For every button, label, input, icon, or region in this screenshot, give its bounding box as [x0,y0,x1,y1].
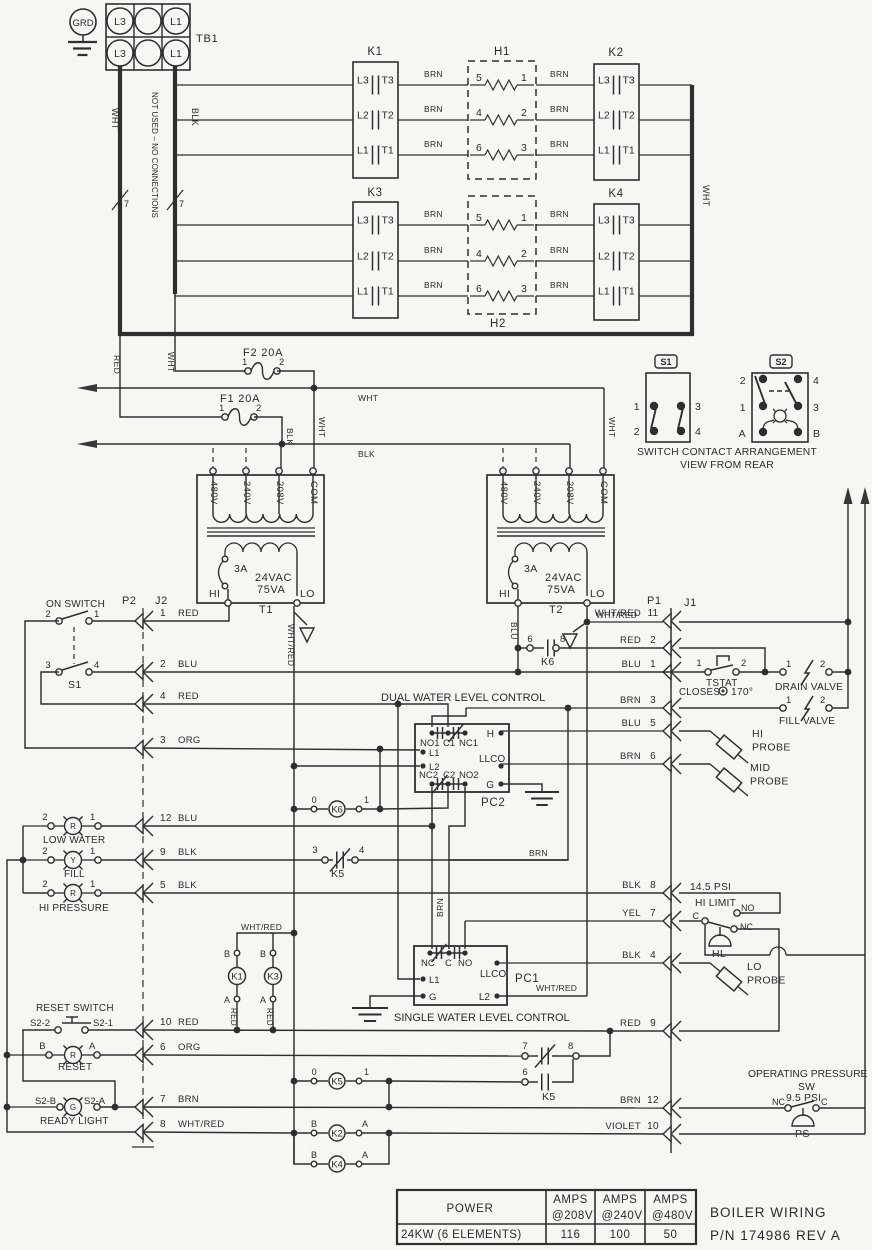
solenoid FILL VALVE [779,695,835,727]
svg-text:DUAL WATER LEVEL CONTROL: DUAL WATER LEVEL CONTROL [381,692,545,704]
node BRN row junction x568 [565,705,572,712]
svg-text:BLK: BLK [622,880,641,891]
svg-text:A: A [362,1119,368,1129]
svg-text:HI LIMIT: HI LIMIT [695,898,737,909]
svg-text:1: 1 [90,846,96,857]
relay coil K2 [294,1119,389,1141]
svg-text:BLK: BLK [178,880,197,891]
wire ON SWITCH link dashed [73,627,75,664]
svg-text:RED: RED [229,1008,238,1026]
svg-text:RESET: RESET [58,1062,92,1073]
wire WHT down to T2 COM [603,388,605,468]
svg-text:WHT: WHT [166,352,176,373]
svg-text:T1: T1 [623,286,635,298]
node K1 A junction [234,1027,241,1034]
wire J2-1 to T1 HI [92,620,135,622]
svg-text:7: 7 [160,1094,166,1105]
wire outer left rail [7,860,135,1132]
off-page arrow down at T2 LO [563,622,587,648]
svg-text:A: A [739,428,746,440]
svg-text:R: R [70,1051,76,1060]
svg-text:BRN: BRN [550,69,569,79]
svg-text:K5: K5 [542,1091,556,1103]
svg-text:LLCO: LLCO [479,754,505,765]
contact K5 pins 7-8 and 6 [522,1041,579,1103]
wire NC2 rail to PC1 NC [431,826,433,949]
svg-text:8: 8 [160,1119,166,1130]
svg-text:LLCO: LLCO [480,969,506,980]
svg-text:116: 116 [561,1229,581,1241]
svg-text:3: 3 [160,735,166,746]
node RED row J1-9 junction [607,1028,614,1035]
wire K6 row to PC2 C2 [380,787,448,809]
wire HI LIMIT C down to right bus [705,925,865,955]
wire RED rail down to PC1 L1 [398,704,420,979]
svg-text:COM: COM [308,481,319,504]
wire K5 junction down to BRN row [388,1081,390,1107]
svg-text:1: 1 [634,401,640,413]
svg-text:T2: T2 [549,604,563,616]
wire drain valve to right bus [832,671,848,673]
svg-text:50: 50 [664,1229,678,1241]
svg-text:4: 4 [476,107,482,119]
wire J1-9 chevron to junction [610,1030,663,1032]
terminal block TB1 [106,4,219,70]
svg-text:3: 3 [650,695,656,706]
wire J2-4 RED row to PC2 C1 [143,704,448,727]
wire TSTAT to drain valve [739,671,783,673]
svg-text:1: 1 [696,658,702,669]
relay coil K3 [260,949,282,1030]
node FILL rail junction [20,857,27,864]
connector dashed line J2/P2 [122,595,168,1147]
svg-text:T1: T1 [623,145,635,157]
svg-text:2: 2 [42,812,48,823]
switch S1 contact arrangement [634,355,702,442]
svg-text:BRN: BRN [529,848,548,858]
wire T2 LO to J1-11 WHT/RED [587,606,848,622]
svg-text:1: 1 [740,402,746,414]
svg-text:4: 4 [813,375,819,387]
wire T1 LO WHT/RED down rail [286,606,296,1164]
svg-text:3: 3 [813,402,819,414]
contacts PC2 NC2 C2 NO2 [419,770,479,793]
svg-text:6: 6 [160,1042,166,1053]
svg-text:BLK: BLK [190,108,200,126]
wire J1-4 BLK row to LO probe [497,962,710,964]
svg-text:TB1: TB1 [196,33,219,45]
svg-text:WHT: WHT [701,185,711,207]
svg-text:5: 5 [650,718,656,729]
svg-text:BLK: BLK [285,428,295,445]
svg-text:F1 20A: F1 20A [220,393,260,405]
svg-text:Y: Y [70,856,76,865]
svg-text:MID: MID [750,762,770,774]
svg-text:75VA: 75VA [547,584,576,596]
svg-text:2: 2 [521,248,527,260]
wire J2-3 ORG row to PC2 L1 [143,748,420,750]
svg-text:BRN: BRN [424,104,443,114]
svg-text:OPERATING PRESSURE: OPERATING PRESSURE [748,1069,868,1080]
terminal PC2 LLCO [479,754,505,769]
svg-text:K1: K1 [231,971,243,982]
svg-text:SWITCH CONTACT ARRANGEMENT: SWITCH CONTACT ARRANGEMENT [637,447,817,458]
svg-text:6: 6 [476,142,482,154]
svg-text:@208V: @208V [552,1210,593,1222]
fuse F1 20A [219,393,262,425]
lamp RESET [7,1041,135,1073]
svg-text:WHT: WHT [110,108,120,130]
switch OPERATING PRESSURE SW [748,1069,868,1111]
svg-text:WHT: WHT [607,417,617,438]
svg-text:NC: NC [740,922,753,932]
svg-text:READY LIGHT: READY LIGHT [40,1116,109,1127]
svg-text:FILL: FILL [64,869,85,880]
svg-text:K6: K6 [541,656,555,668]
svg-text:BOILER WIRING: BOILER WIRING [710,1205,827,1220]
svg-text:HI: HI [209,588,220,600]
svg-text:K1: K1 [367,46,382,58]
svg-text:WHT/RED: WHT/RED [286,624,296,666]
node BLU row junction [515,669,522,676]
wire J2-8 WHT/RED row to K2 coil [143,1132,294,1133]
svg-text:RED: RED [178,1017,199,1028]
node ORG row junction K6 coil [377,746,384,753]
connector J1 pin 7 YEL [622,908,681,931]
svg-text:BLK: BLK [178,847,197,858]
wire J1-3 BRN row [466,707,783,709]
svg-text:BRN: BRN [550,104,569,114]
svg-text:BRN: BRN [424,69,443,79]
terminal PC2 G [486,780,503,791]
svg-text:S1: S1 [68,679,82,691]
svg-text:L3: L3 [114,48,126,60]
wire WHT horizontal with left arrow [77,384,604,403]
node K2 K4 junction [386,1130,393,1137]
svg-text:WHT/RED: WHT/RED [596,610,637,620]
label SWITCH CONTACT ARRANGEMENT VIEW FROM REAR [637,447,817,471]
svg-text:K6: K6 [331,804,343,815]
svg-text:4: 4 [650,950,656,961]
connector J1 pin 8 BLK [622,880,681,903]
svg-text:PC2: PC2 [481,797,505,809]
svg-text:L1: L1 [357,145,369,157]
svg-text:BRN: BRN [620,695,641,706]
svg-text:L2: L2 [357,251,369,263]
heater element group H1 [468,46,536,179]
wire gauge slash marks 7 [112,190,184,210]
svg-text:24VAC: 24VAC [545,572,582,584]
wire J1-5 BLU to HI probe [501,730,710,732]
svg-text:NO2: NO2 [459,770,479,781]
svg-text:4: 4 [160,691,166,702]
svg-text:BRN: BRN [424,139,443,149]
svg-text:RED: RED [178,608,199,619]
svg-text:12: 12 [647,1095,659,1106]
svg-text:BRN: BRN [550,245,569,255]
svg-text:WHT: WHT [317,417,327,438]
svg-text:RED: RED [178,691,199,702]
fuse F2 20A [242,347,285,379]
svg-text:3: 3 [695,401,701,413]
svg-text:1: 1 [90,812,96,823]
node NC2 BLU junction [429,823,436,830]
svg-text:5: 5 [476,72,482,84]
svg-text:T2: T2 [623,251,635,263]
svg-text:WHT: WHT [358,393,378,403]
svg-text:HL: HL [712,948,726,960]
svg-text:K5: K5 [331,868,345,880]
svg-text:1: 1 [90,879,96,890]
wire PC1 L2 WHT/RED to T2 LO rail [497,626,587,996]
node K6 coil to ORG junction [377,806,384,813]
svg-text:BLU: BLU [622,659,641,670]
svg-text:8: 8 [560,634,566,645]
lamp HI PRESSURE [39,879,135,914]
svg-text:R: R [70,889,76,898]
svg-text:4: 4 [359,845,365,856]
svg-text:L2: L2 [357,110,369,122]
svg-text:S2-2: S2-2 [30,1018,50,1029]
connector J2 pin 7 BRN [135,1094,199,1117]
svg-text:NOT USED – NO CONNECTIONS: NOT USED – NO CONNECTIONS [150,92,159,218]
svg-text:1: 1 [521,72,527,84]
wire PC1 G to ground [370,996,423,1008]
connector J2 pin 9 BLK [135,847,197,870]
svg-text:ORG: ORG [178,1042,201,1053]
connector J1 pin 5 BLU [622,718,681,741]
contactor K3 [353,187,398,318]
svg-text:BRN: BRN [550,139,569,149]
connector J1 pin 4 BLK [622,950,681,973]
svg-text:WHT/RED: WHT/RED [241,922,282,932]
transformer T1 [197,468,324,616]
svg-text:C: C [693,911,700,921]
probe HI PROBE [710,728,791,763]
svg-text:1: 1 [219,403,225,414]
svg-text:K2: K2 [331,1128,343,1139]
connector J1 pin 10 VIOLET [605,1121,681,1144]
svg-text:1: 1 [160,608,166,619]
svg-text:BRN: BRN [424,245,443,255]
heater element group H2 [468,196,536,330]
svg-text:3A: 3A [524,563,538,575]
ground PC1 [352,1008,388,1021]
svg-text:L1: L1 [598,145,610,157]
svg-text:B: B [311,1119,317,1129]
svg-text:C1: C1 [443,738,455,749]
contacts PC1 NC C NO [421,944,472,969]
wire lamp common rail [23,826,48,893]
contactor K4 [594,188,639,320]
wire HI LIMIT NC down to J1-9 [679,929,779,1031]
relay coil K4 [294,1133,389,1172]
probe MID PROBE [710,762,789,796]
svg-text:1: 1 [242,357,248,368]
connector J2 pin 3 ORG [135,735,201,758]
wire ON SWITCH to J2-3 loop [25,621,135,748]
connector J2 pin 5 BLK [135,880,197,903]
svg-text:B: B [224,949,230,959]
svg-text:VIEW FROM REAR: VIEW FROM REAR [680,460,774,471]
svg-text:RED: RED [620,1018,641,1029]
svg-text:VIOLET: VIOLET [605,1121,641,1132]
svg-text:A: A [260,995,266,1005]
svg-text:POWER: POWER [447,1203,494,1215]
svg-text:T1: T1 [259,604,273,616]
svg-text:BRN: BRN [435,898,445,917]
wire S1 to J2-4 loop [41,672,135,704]
node WHT/RED coil feed junction [291,930,298,937]
svg-text:K2: K2 [608,47,623,59]
svg-text:0: 0 [312,795,317,805]
contacts PC2 NO1 C1 NC1 [420,724,478,749]
svg-text:HI: HI [752,728,763,740]
wire PC2 NO1 to BRN row [432,708,466,727]
node K5 coil pin1 junction [386,1078,393,1085]
svg-text:24VAC: 24VAC [255,572,292,584]
svg-text:7: 7 [179,199,184,209]
svg-text:9.5 PSI: 9.5 PSI [786,1093,821,1104]
svg-text:L3: L3 [598,215,610,227]
svg-text:9: 9 [160,847,166,858]
title BOILER WIRING P/N 174986 REV A [710,1205,841,1243]
wire K5-4 contact to BRN turn [358,859,568,861]
node K3 A junction [270,1027,277,1034]
svg-text:2: 2 [521,107,527,119]
svg-text:BRN: BRN [620,1095,641,1106]
svg-text:3A: 3A [234,563,248,575]
node J1-11 bus junction [845,619,852,626]
svg-text:8: 8 [650,880,656,891]
wire K6 pin1 up to ORG row [379,749,381,809]
wire RED junction down to K5-8 [576,1031,610,1056]
svg-text:RESET SWITCH: RESET SWITCH [36,1003,114,1014]
svg-text:T1: T1 [382,286,394,298]
svg-text:3: 3 [521,283,527,295]
node K6 contact junction [515,645,522,652]
svg-text:6: 6 [527,634,533,645]
svg-text:L2: L2 [479,992,491,1003]
connector J2 pin 4 RED [135,691,199,714]
wire J2-6 ORG row to K5 contact 7 [143,1055,522,1056]
node TSTAT drain junction [762,669,769,676]
wire J2-10 RED row [88,1030,610,1031]
svg-text:2: 2 [279,357,285,368]
svg-text:1: 1 [364,1067,369,1077]
svg-text:5: 5 [160,880,166,891]
svg-text:T3: T3 [382,75,394,87]
svg-text:2: 2 [42,879,48,890]
wire J2-7 BRN row to J1-12 [143,1107,785,1108]
wire J2-12 BLU row [143,825,432,827]
svg-text:P/N 174986 REV A: P/N 174986 REV A [710,1228,841,1243]
switch ON SWITCH [45,599,105,624]
svg-text:L3: L3 [357,75,369,87]
svg-text:L1: L1 [598,286,610,298]
connector J1 pin 9 RED [620,1018,681,1041]
svg-text:S2-1: S2-1 [93,1018,113,1029]
bell HL high limit element [709,927,731,960]
svg-text:2: 2 [740,375,746,387]
svg-text:12: 12 [160,813,172,824]
svg-text:A: A [224,995,230,1005]
wire right outer bus with up arrow [861,487,870,1134]
svg-text:T2: T2 [382,251,394,263]
svg-text:1: 1 [521,212,527,224]
svg-text:2: 2 [45,609,51,620]
svg-text:9: 9 [650,1018,656,1029]
table power ratings [397,1190,696,1244]
svg-text:1: 1 [650,659,656,670]
svg-text:G: G [429,992,436,1003]
svg-text:4: 4 [476,248,482,260]
node READY S2-2 junction [112,1104,119,1111]
svg-text:AMPS: AMPS [603,1194,638,1206]
svg-text:3: 3 [521,142,527,154]
svg-text:H: H [487,729,494,740]
svg-text:6: 6 [650,751,656,762]
relay coil K6 [294,795,380,817]
wire J1-2 RED to TSTAT junction [679,648,765,674]
svg-text:RED: RED [620,635,641,646]
svg-text:RED: RED [265,1008,274,1026]
svg-text:7: 7 [650,908,656,919]
svg-text:@480V: @480V [652,1210,693,1222]
dashed stubs unused taps T1 [212,448,214,467]
node K2 coil WHT/RED junction [291,1130,298,1137]
svg-text:PROBE: PROBE [752,742,791,754]
svg-text:208V: 208V [274,481,285,505]
svg-text:BLU: BLU [178,813,197,824]
svg-text:LOW WATER: LOW WATER [43,835,105,846]
wire YEL turn down to PC1 NO [464,921,466,949]
svg-text:4: 4 [94,660,100,671]
svg-text:ORG: ORG [178,735,201,746]
svg-text:BRN: BRN [424,280,443,290]
wire F1 to BLK bus [254,417,295,445]
wires K1-H1-K2 rows with BRN labels [175,69,692,296]
svg-text:BRN: BRN [550,280,569,290]
wire PC2 G to ground [501,784,542,792]
probe LO PROBE [710,961,786,995]
svg-text:J2: J2 [155,595,168,607]
svg-text:GRD: GRD [72,18,93,29]
contactor K1 [353,46,398,178]
svg-text:T1: T1 [382,145,394,157]
svg-text:0: 0 [312,1067,317,1077]
switch RESET SWITCH [30,1003,114,1033]
svg-text:1: 1 [786,659,792,670]
wire J1-7 YEL row to HI LIMIT C [465,920,701,922]
svg-text:R: R [70,822,76,831]
svg-text:B: B [260,949,266,959]
svg-text:PROBE: PROBE [747,975,786,987]
switch HI LIMIT [693,898,755,932]
node WHT-T1 junction [311,385,318,392]
svg-text:170°: 170° [731,687,753,698]
wire PC2 NO2 down jog to PC1 C [449,787,465,949]
connector J1 pin 1 BLU [622,659,681,682]
svg-text:L1: L1 [429,748,440,759]
ground PC2 [525,792,559,805]
svg-text:BRN: BRN [620,751,641,762]
wire pressure C to right bus [819,1107,865,1109]
off-page arrow down at T1 LO [294,612,314,642]
svg-text:L2: L2 [598,251,610,263]
svg-text:F2 20A: F2 20A [243,347,283,359]
wire BLK down to T1 208V [280,444,282,468]
